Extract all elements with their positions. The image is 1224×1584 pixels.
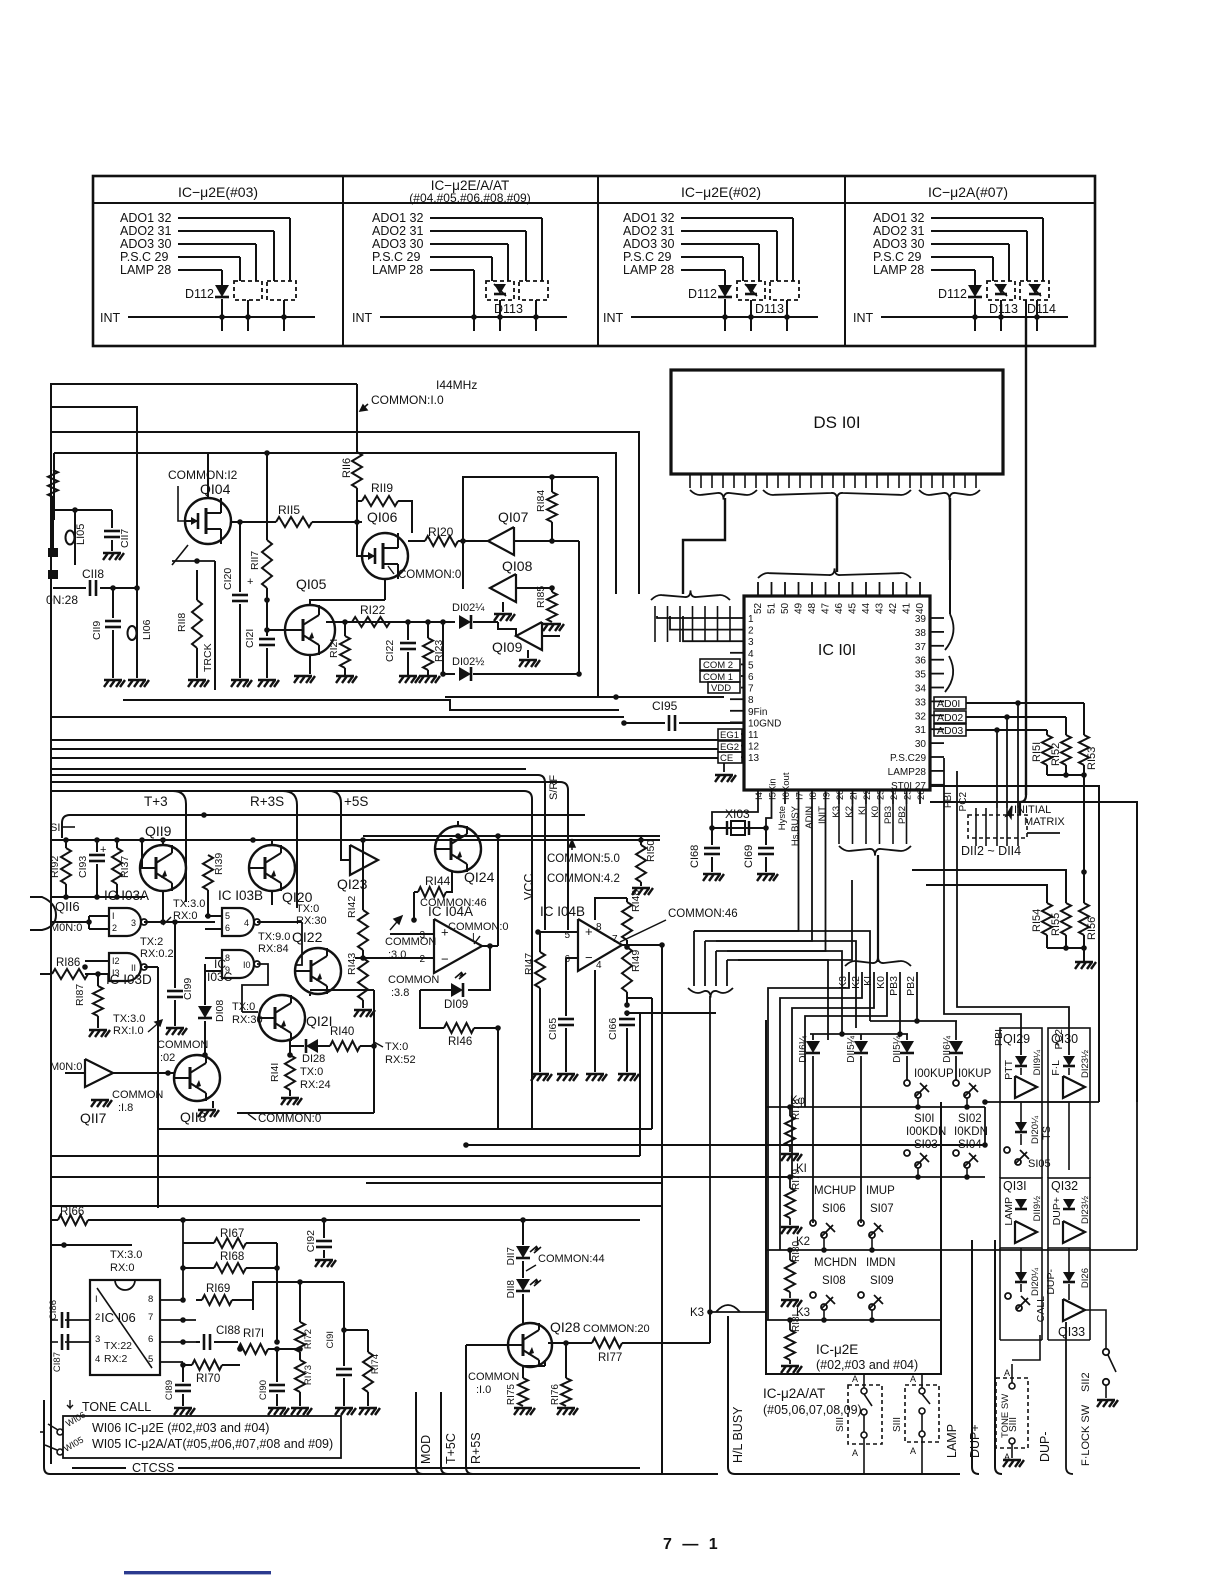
diode row top wire <box>810 1033 908 1035</box>
svg-text:IC I03B: IC I03B <box>218 888 263 903</box>
wire DUP+ vertical <box>995 1240 1002 1474</box>
IC101 right pins 36-34 bundle brace <box>945 656 953 692</box>
dashed box 2 <box>267 281 296 300</box>
svg-text::3.8: :3.8 <box>391 987 409 999</box>
IC106 diagonal <box>97 1288 152 1368</box>
IC101 left pin wires from DS101 bundle <box>657 616 730 618</box>
svg-text:COMMON:0: COMMON:0 <box>258 1113 321 1125</box>
S III box 2 <box>905 1385 939 1442</box>
brace on K3 wire <box>716 1305 740 1312</box>
wire x640 up to C166 node <box>639 1013 641 1156</box>
svg-text:CTCSS: CTCSS <box>132 1461 174 1475</box>
svg-text:43: 43 <box>875 602 886 614</box>
svg-text:QI04: QI04 <box>200 481 231 497</box>
svg-text:11: 11 <box>748 730 759 741</box>
svg-text:34: 34 <box>915 684 927 695</box>
svg-text:24: 24 <box>889 789 900 800</box>
wire IC104A output <box>482 945 498 947</box>
svg-text:SI07: SI07 <box>870 1203 894 1215</box>
wire x579 vertical <box>578 541 580 674</box>
svg-text:CI90: CI90 <box>258 1380 269 1400</box>
svg-text:33: 33 <box>915 697 927 708</box>
svg-text:I00KUP: I00KUP <box>914 1068 954 1080</box>
K2 row wire <box>766 1249 941 1251</box>
diode D123 q132 <box>1063 1199 1075 1209</box>
wire H/L BUSY vertical <box>728 1316 735 1474</box>
amp Q131 triangle <box>1015 1221 1037 1243</box>
svg-text:RI77: RI77 <box>598 1352 622 1364</box>
svg-text:CI22: CI22 <box>384 640 396 662</box>
bundle wire down <box>877 855 879 962</box>
PB2 column wire <box>916 972 918 1021</box>
svg-text:RI46: RI46 <box>448 1036 472 1048</box>
wire Q109 output <box>542 635 560 637</box>
svg-text:A: A <box>852 1448 858 1458</box>
svg-text:RX:52: RX:52 <box>385 1054 416 1066</box>
svg-text:RI47: RI47 <box>523 953 535 975</box>
wire base row y622 <box>326 621 455 623</box>
svg-text:D113: D113 <box>494 302 523 316</box>
DS101 pin brace 3 <box>919 490 980 500</box>
wire x374 vertical <box>373 1046 375 1113</box>
matrix left border <box>766 1020 941 1374</box>
svg-text:COMMON: COMMON <box>388 974 439 986</box>
svg-text:ADO2 31: ADO2 31 <box>873 224 924 238</box>
svg-text:IC I03A: IC I03A <box>104 888 149 903</box>
dashed box 2 <box>770 281 799 300</box>
bus lane corner R+3S <box>283 791 297 908</box>
svg-text:22: 22 <box>862 789 873 800</box>
svg-text:LAMP: LAMP <box>945 1424 959 1458</box>
svg-text:SI08: SI08 <box>822 1275 846 1287</box>
svg-text:6: 6 <box>148 1334 153 1345</box>
svg-text:T+5C: T+5C <box>444 1433 458 1464</box>
svg-text:23: 23 <box>876 789 887 800</box>
svg-text:RI72: RI72 <box>303 1329 314 1349</box>
svg-text:2I: 2I <box>849 792 860 800</box>
IC103A output wire <box>144 921 215 923</box>
wire Q128 base <box>466 1344 508 1346</box>
svg-text:7: 7 <box>148 1312 153 1323</box>
svg-text:COMMON:46: COMMON:46 <box>668 908 738 920</box>
IC106 pin wires left <box>65 1319 90 1321</box>
svg-text:RI87: RI87 <box>74 984 86 1006</box>
svg-text:RI53: RI53 <box>1086 747 1098 770</box>
svg-text:COMMON: COMMON <box>385 936 436 948</box>
svg-text:AD0I: AD0I <box>937 698 960 710</box>
INT wire <box>128 316 315 318</box>
wire IC104B output <box>622 944 662 946</box>
svg-text:TX:2: TX:2 <box>140 936 163 948</box>
svg-text:COMMON:0: COMMON:0 <box>448 921 509 933</box>
svg-text:PB3: PB3 <box>888 976 900 996</box>
svg-text:CE: CE <box>720 753 733 764</box>
IC106 pin6 wire <box>160 1341 196 1343</box>
svg-text:IC I0I: IC I0I <box>818 642 856 659</box>
wire Q121 base from IC103C <box>241 1000 243 1012</box>
svg-text:RII7: RII7 <box>249 551 261 570</box>
svg-text:TX:0: TX:0 <box>232 1001 255 1013</box>
wire ADO2 <box>966 716 1066 718</box>
svg-text:DII6¼: DII6¼ <box>941 1035 953 1062</box>
svg-text:9Fin: 9Fin <box>748 707 767 718</box>
resistor R154 <box>1042 903 1052 935</box>
table outer frame <box>93 176 1095 346</box>
component stubs left edge <box>48 548 58 557</box>
initial matrix column wires <box>975 808 977 846</box>
right column cell borders <box>999 1102 1001 1178</box>
svg-text:45: 45 <box>848 602 859 614</box>
K3 row wire <box>710 1311 766 1313</box>
svg-text:DI23½: DI23½ <box>1080 1050 1091 1078</box>
svg-text:RI75: RI75 <box>506 1384 517 1406</box>
table column divider 2 <box>597 176 599 346</box>
svg-text:RI86: RI86 <box>56 957 80 969</box>
switch S107 <box>858 1220 864 1226</box>
svg-text:DII8: DII8 <box>506 1280 517 1299</box>
dashed box 1 <box>234 281 262 300</box>
svg-text:DS I0I: DS I0I <box>813 413 860 432</box>
svg-text:48: 48 <box>807 602 818 614</box>
K3 column wire <box>768 972 849 1320</box>
svg-text:7: 7 <box>748 684 754 695</box>
wire bottom bus right part <box>735 1473 960 1475</box>
svg-text:H/L BUSY: H/L BUSY <box>731 1406 745 1463</box>
svg-text:QII9: QII9 <box>145 823 172 839</box>
svg-text:4: 4 <box>244 918 249 928</box>
brace over IC101 top pins <box>758 568 911 578</box>
svg-text:RI84: RI84 <box>535 490 547 512</box>
svg-text:I3: I3 <box>112 968 120 978</box>
wire D102 left vertical <box>442 622 444 674</box>
ground under CE <box>723 763 725 772</box>
cell box Q131 <box>1000 1178 1042 1248</box>
wire Q105 emitter ground <box>309 655 311 674</box>
diode D120 mid <box>1015 1122 1027 1132</box>
svg-text:DII9¼: DII9¼ <box>1032 1049 1043 1075</box>
svg-text:QII6: QII6 <box>55 899 80 914</box>
dashed box 1 <box>737 281 765 300</box>
diode D112 <box>718 285 732 297</box>
wire 144MHz bus <box>50 383 357 385</box>
svg-text:DII6¼: DII6¼ <box>797 1035 809 1062</box>
svg-text:P.S.C29: P.S.C29 <box>890 753 926 764</box>
svg-text:ADO3 30: ADO3 30 <box>372 237 423 251</box>
INT wire <box>631 316 818 318</box>
svg-text:4: 4 <box>596 960 602 971</box>
svg-text:SIII: SIII <box>892 1417 903 1432</box>
gate IC103C <box>222 950 254 978</box>
svg-text:CI99: CI99 <box>182 978 194 1000</box>
IC101 top pins <box>757 582 759 596</box>
svg-text:42: 42 <box>888 602 899 614</box>
svg-text:I7: I7 <box>795 792 806 800</box>
svg-text:RII5: RII5 <box>278 503 300 517</box>
svg-text:QI28: QI28 <box>550 1319 581 1335</box>
svg-text:50: 50 <box>780 602 791 614</box>
IC103A input wires <box>89 915 109 917</box>
wire left vertical bus x51 <box>50 384 52 1464</box>
svg-text:2: 2 <box>95 1312 100 1323</box>
TONE SW wires <box>1012 1335 1040 1360</box>
svg-text:QI07: QI07 <box>498 509 529 525</box>
svg-text:COMMON:4.2: COMMON:4.2 <box>547 873 620 885</box>
TONE SW box <box>996 1378 1028 1448</box>
svg-text:D113: D113 <box>989 302 1018 316</box>
wire C166 node right <box>627 1012 716 1014</box>
wire Q107 output <box>514 540 552 542</box>
resistor R144 <box>418 887 446 897</box>
diode D123 q130 <box>1063 1056 1075 1066</box>
wire TS vertical <box>1068 1102 1070 1170</box>
wire joining R154-156 <box>1046 935 1048 948</box>
svg-text:4: 4 <box>95 1354 100 1365</box>
svg-text:CI66: CI66 <box>607 1018 619 1040</box>
svg-text:ADIN: ADIN <box>804 806 815 829</box>
svg-text:LAMP: LAMP <box>1003 1197 1015 1226</box>
diode D113 <box>494 284 506 294</box>
wire T+5C tap <box>441 1392 448 1474</box>
svg-text:ADO2 31: ADO2 31 <box>623 224 674 238</box>
svg-text:T+3: T+3 <box>144 794 168 809</box>
svg-text:D112: D112 <box>185 287 214 301</box>
wire y1156 long <box>51 1155 640 1157</box>
svg-text:CI87: CI87 <box>52 1352 63 1372</box>
svg-text:10GND: 10GND <box>748 718 781 729</box>
svg-text:VCC: VCC <box>522 874 536 900</box>
svg-text:TONE CALL: TONE CALL <box>82 1400 151 1414</box>
svg-text:RI44: RI44 <box>425 874 451 888</box>
svg-text:35: 35 <box>915 670 927 681</box>
svg-text:K2: K2 <box>844 806 855 818</box>
svg-text:52: 52 <box>753 602 764 614</box>
wire bottom bus y1474 <box>50 1473 718 1475</box>
svg-text:QI06: QI06 <box>367 509 398 525</box>
svg-text:COMMON:I2: COMMON:I2 <box>168 468 238 482</box>
wire pin8 top <box>595 898 627 920</box>
svg-text:I00KDN: I00KDN <box>906 1126 946 1138</box>
ground under C168 <box>703 874 724 881</box>
IC106 pin8 wire <box>160 1245 183 1300</box>
svg-text:RX:24: RX:24 <box>300 1079 331 1091</box>
wire R+5S tap <box>466 1392 473 1474</box>
IC103C output wire <box>242 964 268 1000</box>
wires IC101 pins down to brace <box>838 804 840 844</box>
resistor R155 <box>1061 903 1071 935</box>
svg-text:DII9½: DII9½ <box>1032 1196 1043 1221</box>
svg-text:SI0I: SI0I <box>914 1113 934 1125</box>
wire bus y791 <box>51 791 532 1129</box>
ground under TONE SW <box>1011 1444 1013 1458</box>
diode D113 <box>745 284 757 294</box>
svg-text:INT: INT <box>352 311 373 325</box>
svg-text:DUP+: DUP+ <box>968 1424 982 1458</box>
svg-text:36: 36 <box>915 656 927 667</box>
wire Q107 feedback top <box>498 476 598 478</box>
svg-text:PTT: PTT <box>1003 1059 1015 1079</box>
ground under Q108 <box>502 602 504 612</box>
svg-text:40: 40 <box>915 602 926 614</box>
svg-text:VDD: VDD <box>711 683 731 694</box>
svg-text:QI32: QI32 <box>1051 1179 1078 1193</box>
svg-text:DUP+: DUP+ <box>1051 1197 1063 1225</box>
wire bus y769 <box>51 768 526 770</box>
svg-text:RI49: RI49 <box>630 950 642 972</box>
svg-text:IMUP: IMUP <box>866 1185 895 1197</box>
svg-text:49: 49 <box>794 602 805 614</box>
wire y1129 long <box>158 1128 652 1130</box>
svg-text:TX:0: TX:0 <box>385 1041 408 1053</box>
svg-text:32: 32 <box>915 711 927 722</box>
svg-text:Hyste: Hyste <box>777 806 788 830</box>
cell box Q132 <box>1048 1178 1090 1248</box>
wire MOD tap <box>416 1392 423 1474</box>
bus lane corner +5S <box>329 791 341 860</box>
svg-text:QI2I: QI2I <box>306 1013 332 1029</box>
svg-text:+: + <box>247 576 253 588</box>
diode D119 q129 <box>1015 1056 1027 1066</box>
svg-text:8: 8 <box>596 922 602 933</box>
svg-text:DII7: DII7 <box>506 1247 517 1266</box>
svg-text:CI89: CI89 <box>164 1380 175 1400</box>
svg-text:COM 2: COM 2 <box>703 660 733 671</box>
switch S102 <box>953 1080 959 1086</box>
svg-text:3: 3 <box>131 918 136 928</box>
svg-text:COMMON:20: COMMON:20 <box>583 1323 650 1335</box>
svg-text:A: A <box>910 1374 916 1384</box>
svg-text:39: 39 <box>915 614 927 625</box>
wire ADO dots down to matrix <box>996 730 998 808</box>
wire x324/c192 <box>323 1220 325 1238</box>
wire y960 long <box>738 960 828 1040</box>
svg-text:30: 30 <box>915 739 927 750</box>
svg-text:IC−μ2A(#07): IC−μ2A(#07) <box>928 184 1008 200</box>
wire y951 long <box>727 951 842 1034</box>
ground under C169 <box>757 874 778 881</box>
ground under R187 <box>89 1030 110 1037</box>
wire DS101 mid bundle to IC101 top <box>836 498 838 572</box>
svg-text:DUP-: DUP- <box>1038 1431 1052 1462</box>
brace under bundle <box>688 988 733 998</box>
switch S109 <box>858 1292 864 1298</box>
svg-text:I6Xout: I6Xout <box>781 772 792 800</box>
wire Q104 gate <box>178 486 185 521</box>
svg-text:QI30: QI30 <box>1051 1032 1078 1046</box>
svg-text:EG1: EG1 <box>720 730 739 741</box>
wire IC104B +input <box>538 931 578 933</box>
pin label COM2 <box>700 659 740 670</box>
INT wire <box>380 316 567 318</box>
wire R177 up to K3 <box>709 1312 711 1343</box>
wire bus y453 <box>54 453 616 594</box>
switch S101 <box>904 1080 910 1086</box>
brace over IC101 left bundle <box>651 590 730 600</box>
wire DUP- vertical <box>1066 1322 1073 1474</box>
svg-text::I.8: :I.8 <box>118 1102 133 1114</box>
svg-text:RX:0.2: RX:0.2 <box>140 948 174 960</box>
svg-text:IC−μ2E(#03): IC−μ2E(#03) <box>178 184 258 200</box>
svg-text:(#04,#05,#06,#08,#09): (#04,#05,#06,#08,#09) <box>409 191 530 205</box>
svg-text:D113: D113 <box>755 302 784 316</box>
wire bus y407 <box>50 407 137 588</box>
cell box Q129 <box>1000 1028 1042 1102</box>
wire Q109 input <box>498 622 516 636</box>
box around W106/W105 lines <box>63 1416 341 1458</box>
initial matrix dashed box <box>968 815 1027 838</box>
wire DS101 right bundle to IC101 right pins <box>949 498 951 560</box>
svg-text:51: 51 <box>767 602 778 614</box>
ADO1 boxed label <box>934 697 966 709</box>
wire rail y840 <box>51 839 660 841</box>
wire right vertical x1137 <box>930 802 1137 1102</box>
INT wire <box>881 316 1068 318</box>
wire ADO1 <box>966 702 1084 704</box>
wire Q119 base <box>141 840 143 868</box>
svg-text:4: 4 <box>748 649 754 660</box>
svg-text:SII2: SII2 <box>1080 1372 1092 1392</box>
wire x277 vertical <box>276 1243 278 1342</box>
pin label EG1 <box>718 729 742 740</box>
wire bus y700 <box>123 700 619 710</box>
svg-text:DI02¼: DI02¼ <box>452 602 485 614</box>
S III box 1 <box>848 1385 882 1444</box>
resistor R156 <box>1079 903 1089 935</box>
svg-text:LI05: LI05 <box>75 524 87 545</box>
svg-text:RI73: RI73 <box>303 1365 314 1385</box>
svg-text:COMMON:44: COMMON:44 <box>538 1253 605 1265</box>
svg-text:41: 41 <box>902 602 913 614</box>
svg-text:CI86: CI86 <box>48 1300 59 1320</box>
svg-text:LAMP 28: LAMP 28 <box>120 263 171 277</box>
resistor R115 <box>231 521 276 523</box>
wire y1107-vert right <box>984 1107 986 1145</box>
svg-text:P.S.C 29: P.S.C 29 <box>623 250 671 264</box>
wire bus y717 <box>51 716 624 718</box>
svg-text:ADO3 30: ADO3 30 <box>120 237 171 251</box>
svg-text:I44MHz: I44MHz <box>436 378 477 392</box>
svg-text:CI95: CI95 <box>652 699 678 713</box>
ADO2 boxed label <box>934 711 966 723</box>
svg-text:IC I04A: IC I04A <box>428 904 473 919</box>
svg-text:QI29: QI29 <box>1003 1032 1030 1046</box>
svg-text:K3: K3 <box>690 1307 704 1319</box>
table title row divider <box>93 202 1095 204</box>
wire y1113 <box>237 1112 374 1114</box>
svg-text:RI56: RI56 <box>1086 917 1098 940</box>
svg-text:IC: IC <box>214 957 226 971</box>
svg-text:TRCK: TRCK <box>202 643 214 672</box>
svg-text:44: 44 <box>861 602 872 614</box>
svg-text:RII9: RII9 <box>371 481 393 495</box>
svg-text:II: II <box>131 963 136 973</box>
K1 column wire <box>792 972 874 1177</box>
wire DS101 left bundle to IC101 pins 1-3 <box>683 498 725 594</box>
svg-text:COMMON: COMMON <box>468 1371 519 1383</box>
wire Q105 base <box>267 629 285 631</box>
wire Q121/Q122 connection <box>309 994 311 996</box>
svg-text:I0: I0 <box>243 960 251 970</box>
switch S105 <box>1004 1147 1010 1153</box>
svg-text:SI02: SI02 <box>958 1113 982 1125</box>
svg-text:31: 31 <box>915 725 927 736</box>
svg-text:IC I06: IC I06 <box>101 1310 136 1325</box>
dashed box 2 <box>519 281 548 300</box>
ground under R156 <box>1083 948 1085 962</box>
wire y941 long <box>716 941 856 1028</box>
svg-text:RI69: RI69 <box>206 1283 230 1295</box>
svg-text:F·L: F·L <box>1050 1060 1062 1076</box>
svg-text:RX:I.0: RX:I.0 <box>113 1025 144 1037</box>
